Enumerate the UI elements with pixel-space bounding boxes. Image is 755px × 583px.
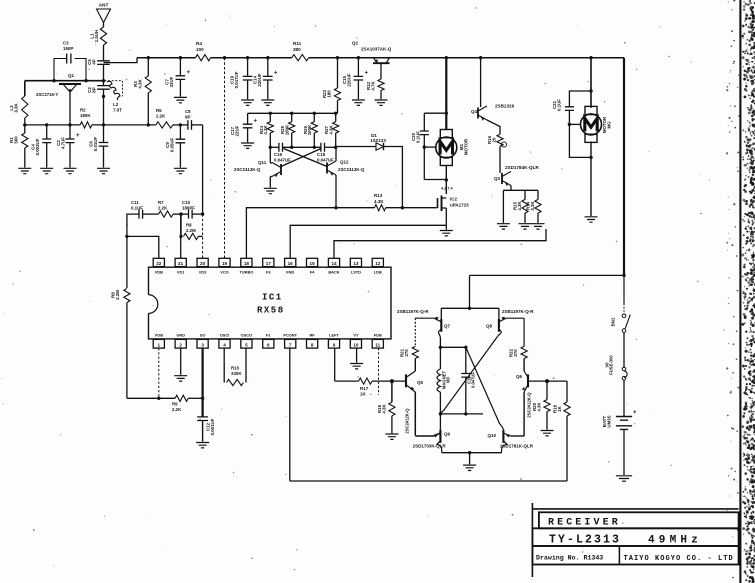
svg-text:RF: RF [310, 333, 316, 338]
svg-text:+: + [254, 119, 258, 125]
svg-text:10: 10 [353, 342, 359, 347]
svg-text:FND: FND [286, 270, 294, 275]
svg-text:VDB: VDB [155, 270, 163, 275]
svg-text:F3: F3 [266, 270, 271, 275]
svg-text:R13: R13 [374, 193, 383, 198]
svg-text:330K: 330K [231, 371, 242, 376]
svg-text:4.2.7.4: 4.2.7.4 [441, 187, 453, 191]
svg-text:C11: C11 [131, 200, 139, 205]
svg-text:20: 20 [491, 137, 496, 142]
svg-text:VCO: VCO [220, 270, 228, 275]
svg-text:0.1UF: 0.1UF [415, 131, 420, 143]
svg-text:4.3K: 4.3K [374, 199, 384, 204]
svg-text:Q8: Q8 [486, 324, 493, 329]
svg-text:1SS133: 1SS133 [370, 138, 386, 143]
svg-text:FDB: FDB [374, 333, 382, 338]
svg-text:100: 100 [196, 47, 204, 52]
svg-text:2.2M: 2.2M [186, 228, 196, 233]
svg-text:2SB1197K-Q-R: 2SB1197K-Q-R [502, 309, 534, 314]
svg-text:MOTOR: MOTOR [463, 138, 468, 155]
svg-text:MG: MG [606, 121, 611, 129]
svg-text:0.05UF: 0.05UF [169, 137, 174, 152]
svg-text:+: + [187, 70, 191, 76]
svg-text:TY-L2313: TY-L2313 [549, 534, 621, 547]
svg-text:ANT: ANT [99, 3, 109, 9]
svg-text:4: 4 [223, 342, 226, 347]
svg-text:11: 11 [375, 342, 380, 347]
svg-text:33UF: 33UF [169, 76, 174, 87]
svg-text:R9: R9 [172, 402, 178, 407]
svg-text:2SC2412K-Q: 2SC2412K-Q [405, 408, 410, 434]
svg-text:+: + [633, 410, 637, 416]
svg-text:Q7: Q7 [444, 324, 451, 329]
svg-text:150P: 150P [63, 46, 73, 51]
svg-text:Q6: Q6 [516, 374, 523, 379]
svg-text:VT: VT [353, 333, 359, 338]
svg-text:0.1UF: 0.1UF [556, 99, 561, 111]
svg-text:20: 20 [200, 261, 206, 266]
svg-text:Q4: Q4 [471, 109, 478, 114]
svg-text:4.3K: 4.3K [329, 125, 334, 135]
svg-text:4.3K: 4.3K [263, 125, 268, 135]
svg-text:0.01UF: 0.01UF [93, 136, 98, 151]
svg-text:Q5: Q5 [417, 380, 424, 385]
svg-text:0.047UF: 0.047UF [317, 158, 334, 163]
svg-text:R2: R2 [80, 108, 86, 113]
svg-text:220UF: 220UF [346, 73, 351, 86]
svg-text:R10: R10 [231, 366, 240, 371]
svg-text:7: 7 [289, 342, 292, 347]
svg-text:1K: 1K [557, 405, 562, 411]
svg-text:100K: 100K [307, 124, 312, 135]
svg-text:4P: 4P [91, 59, 96, 64]
svg-text:F4: F4 [310, 270, 315, 275]
svg-text:+: + [274, 71, 278, 77]
svg-text:1K: 1K [360, 392, 367, 397]
svg-text:6: 6 [267, 342, 270, 347]
svg-text:2SC2412K-Q: 2SC2412K-Q [234, 167, 261, 172]
svg-text:8P: 8P [91, 87, 96, 92]
svg-text:2SD1781K-QLR: 2SD1781K-QLR [500, 444, 534, 449]
svg-text:TAIYO KOGYO CO. - LTD: TAIYO KOGYO CO. - LTD [624, 555, 734, 563]
svg-text:13: 13 [353, 261, 359, 266]
svg-text:17: 17 [266, 261, 272, 266]
svg-text:7.0T: 7.0T [113, 108, 122, 113]
svg-text:R8: R8 [186, 223, 192, 228]
svg-text:C8: C8 [185, 109, 191, 114]
svg-text:IC1: IC1 [262, 293, 283, 303]
svg-text:2.2K: 2.2K [172, 407, 182, 412]
svg-text:2.2K: 2.2K [158, 205, 168, 210]
svg-text:Q1: Q1 [68, 73, 75, 78]
svg-text:270: 270 [513, 349, 518, 357]
svg-text:49MHz: 49MHz [648, 534, 702, 546]
svg-text:220UF: 220UF [257, 73, 262, 86]
svg-text:18: 18 [244, 261, 250, 266]
svg-text:3: 3 [201, 342, 204, 347]
svg-text:Q3: Q3 [494, 176, 501, 181]
svg-text:9P: 9P [185, 115, 190, 120]
svg-text:0.002UF: 0.002UF [35, 138, 40, 155]
svg-text:Drawing No. R1343: Drawing No. R1343 [536, 555, 603, 562]
svg-text:IC2: IC2 [450, 197, 458, 202]
svg-text:0.001UF: 0.001UF [210, 418, 215, 435]
svg-text:UM3S: UM3S [606, 415, 611, 427]
svg-text:2SC2715-Y: 2SC2715-Y [36, 92, 58, 97]
svg-text:0.047UF: 0.047UF [274, 158, 291, 163]
svg-text:2SD1784K-QLR: 2SD1784K-QLR [505, 165, 539, 170]
svg-text:Q2: Q2 [352, 41, 359, 46]
svg-text:LSTD: LSTD [351, 270, 361, 275]
svg-text:C3: C3 [63, 41, 69, 46]
svg-text:180: 180 [326, 90, 331, 98]
svg-text:22UF: 22UF [234, 125, 239, 136]
svg-text:0.047UF: 0.047UF [234, 71, 239, 88]
svg-text:RX58: RX58 [257, 306, 285, 316]
svg-text:4.7K: 4.7K [370, 81, 375, 91]
svg-text:Q10: Q10 [488, 433, 497, 438]
svg-text:4.3K: 4.3K [381, 404, 386, 414]
svg-text:4.3K: 4.3K [536, 402, 541, 412]
svg-text:Q9: Q9 [444, 432, 451, 437]
svg-text:1: 1 [158, 342, 161, 347]
svg-text:180PF: 180PF [182, 205, 195, 210]
svg-text:GND: GND [176, 333, 185, 338]
svg-text:+: + [76, 133, 80, 139]
svg-text:9: 9 [333, 342, 336, 347]
svg-text:22: 22 [156, 261, 162, 266]
svg-text:R11: R11 [293, 41, 302, 46]
svg-text:PCONT: PCONT [283, 333, 297, 338]
svg-text:0.047UF: 0.047UF [471, 372, 476, 389]
svg-text:19: 19 [222, 261, 228, 266]
svg-text:BN1: BN1 [611, 317, 616, 326]
svg-text:380: 380 [293, 47, 301, 52]
svg-text:2SC2412K-Q: 2SC2412K-Q [527, 392, 532, 418]
svg-text:15: 15 [310, 261, 316, 266]
svg-text:C16: C16 [274, 152, 283, 157]
svg-text:R7: R7 [158, 200, 164, 205]
svg-text:LDB: LDB [374, 270, 382, 275]
svg-text:2SD1703K-QLR: 2SD1703K-QLR [413, 444, 447, 449]
svg-text:R5: R5 [156, 108, 162, 113]
svg-text:VD1: VD1 [177, 270, 185, 275]
svg-text:560: 560 [13, 136, 18, 144]
svg-text:BACK: BACK [328, 270, 339, 275]
svg-text:R4: R4 [196, 41, 202, 46]
svg-text:Q11: Q11 [258, 160, 267, 165]
svg-text:270: 270 [404, 349, 409, 357]
svg-text:SO: SO [200, 333, 206, 338]
svg-text:180K: 180K [80, 113, 91, 118]
svg-text:+: + [365, 71, 369, 77]
svg-text:RECEIVER: RECEIVER [548, 518, 621, 529]
svg-text:F1: F1 [266, 333, 271, 338]
svg-text:uPA1723: uPA1723 [450, 203, 469, 208]
svg-text:OSCI: OSCI [220, 333, 230, 338]
svg-text:R17: R17 [360, 386, 369, 391]
svg-text:2SC2412K-Q: 2SC2412K-Q [338, 167, 365, 172]
svg-text:C10: C10 [182, 200, 191, 205]
svg-text:21: 21 [178, 261, 184, 266]
svg-text:2SB1197K-Q-R: 2SB1197K-Q-R [397, 309, 429, 314]
svg-text:Q12: Q12 [340, 160, 349, 165]
svg-text:0.1UF: 0.1UF [131, 205, 143, 210]
svg-text:2.2M: 2.2M [115, 290, 120, 300]
svg-text:4.3K: 4.3K [137, 79, 142, 89]
svg-text:VD3: VD3 [199, 270, 207, 275]
svg-text:4.3K: 4.3K [517, 201, 522, 211]
svg-text:1.5UH: 1.5UH [94, 30, 99, 42]
svg-text:3.3K: 3.3K [13, 103, 18, 113]
svg-text:2.2K: 2.2K [156, 114, 166, 119]
svg-text:2SB1326: 2SB1326 [495, 104, 515, 109]
svg-text:VOB: VOB [155, 333, 164, 338]
svg-text:2: 2 [179, 342, 182, 347]
svg-text:5: 5 [245, 342, 248, 347]
svg-text:LEFT: LEFT [329, 333, 339, 338]
svg-text:16: 16 [288, 261, 294, 266]
svg-text:FUSE-300: FUSE-300 [609, 355, 614, 375]
svg-text:12: 12 [375, 261, 381, 266]
svg-text:180K: 180K [285, 124, 290, 135]
svg-text:8: 8 [311, 342, 314, 347]
svg-text:L2: L2 [113, 102, 119, 107]
svg-text:14: 14 [331, 261, 337, 266]
svg-text:M3: M3 [446, 376, 451, 382]
svg-text:3.3K: 3.3K [530, 201, 535, 211]
svg-text:4.7UF: 4.7UF [60, 137, 65, 149]
svg-text:C18: C18 [317, 152, 326, 157]
svg-text:OSCO: OSCO [241, 333, 252, 338]
svg-text:2SA1037AK-Q: 2SA1037AK-Q [361, 47, 392, 52]
svg-text:TURBO: TURBO [239, 270, 253, 275]
